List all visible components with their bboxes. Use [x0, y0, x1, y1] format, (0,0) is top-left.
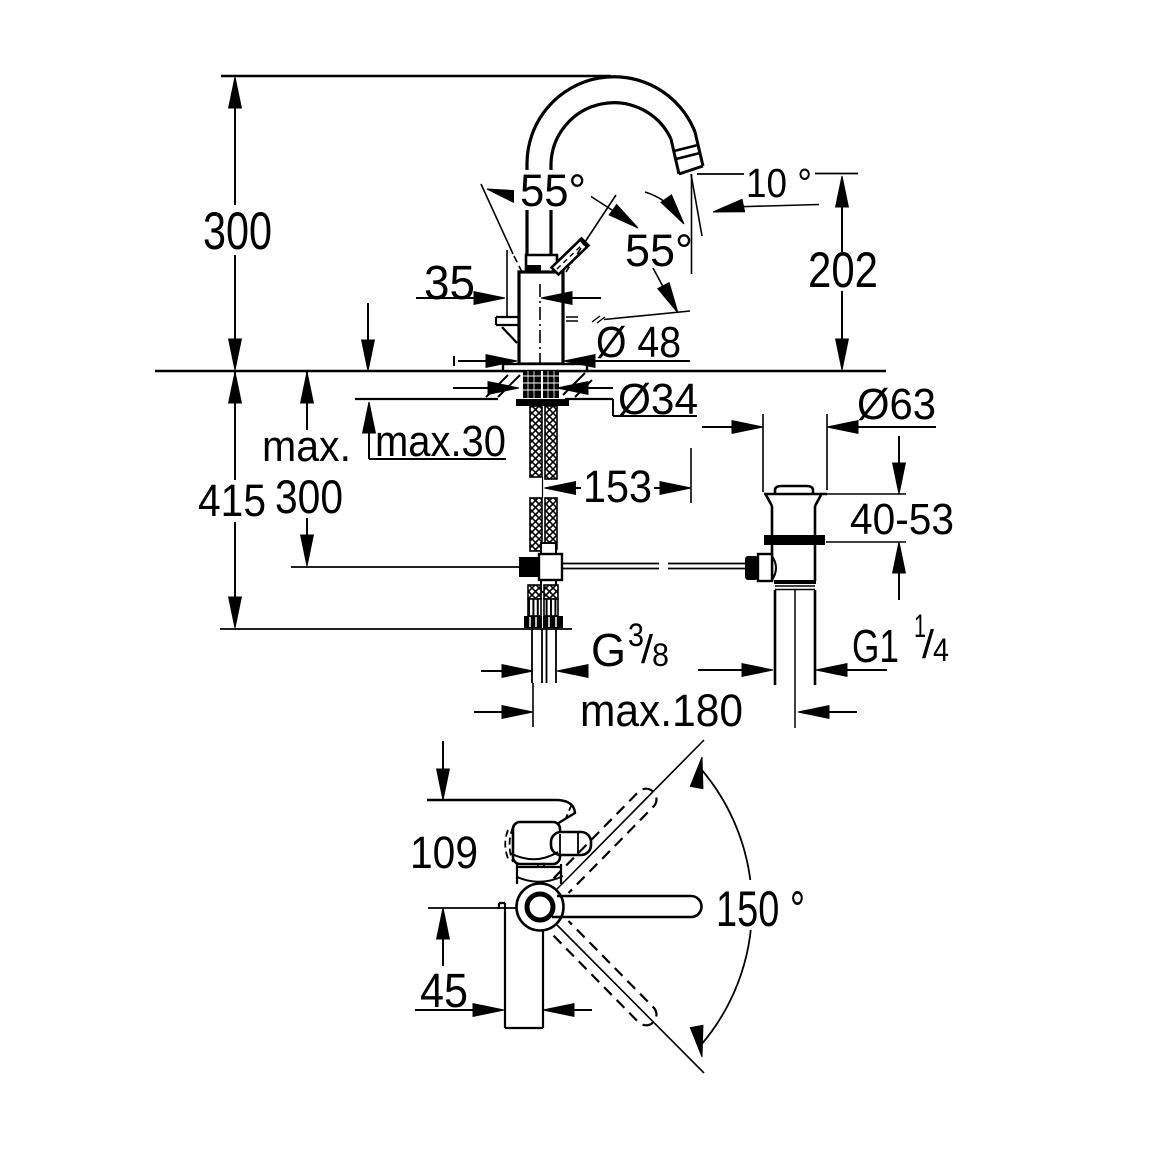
spout collar lines	[674, 145, 700, 159]
plan dashed spout up position	[554, 789, 657, 893]
dim G3/8	[481, 670, 505, 672]
drain plug cap	[775, 486, 813, 495]
plan dashed spout down position	[554, 921, 657, 1025]
hose break centerline	[542, 477, 544, 498]
drain clamp ring	[764, 535, 825, 545]
dim G1 1/4	[698, 669, 887, 671]
spout tip face	[679, 166, 703, 174]
plan spout bar	[552, 896, 702, 917]
plan escutcheon dashed arcs	[505, 830, 509, 861]
counter top line	[155, 370, 886, 372]
hose connector nuts striped	[528, 599, 541, 616]
dimension 300 line	[234, 79, 236, 368]
faucet body	[519, 272, 563, 364]
svg-text:Ø34: Ø34	[618, 375, 698, 424]
150deg lower leg	[557, 925, 704, 1073]
hose end nuts dark	[524, 616, 542, 628]
plan spout ring	[517, 884, 564, 931]
svg-text:45: 45	[420, 965, 468, 1018]
max180 left extension line	[532, 683, 534, 727]
cap black wedge	[527, 265, 541, 273]
tailpipe centerline	[794, 590, 796, 728]
svg-text:202: 202	[808, 242, 878, 298]
55 upper left leg	[481, 184, 513, 254]
drain body upper	[772, 506, 815, 535]
svg-text:109: 109	[410, 827, 478, 878]
dim Ø34	[453, 387, 613, 389]
plan lever stub	[551, 832, 591, 855]
dim 109 top arrow	[442, 741, 444, 772]
spout tip right edge	[695, 132, 703, 166]
dim 415	[234, 372, 236, 626]
braided hose segment 3	[528, 585, 541, 599]
dim 35 extension line	[506, 250, 508, 316]
dim max30 lower arrow and bracket	[369, 428, 506, 459]
plan handle top outline	[427, 800, 575, 827]
svg-text:35: 35	[424, 257, 475, 310]
plan neck	[517, 864, 561, 884]
dim Ø48	[454, 356, 690, 366]
dim max300	[306, 372, 308, 540]
pop-up rod left extension	[291, 566, 519, 568]
braided hose segment 2	[530, 498, 542, 551]
202 top reference line	[697, 173, 858, 176]
spout tip left edge	[671, 139, 679, 174]
svg-text:max.180: max.180	[580, 685, 743, 736]
svg-text:300: 300	[203, 202, 272, 261]
svg-text:55°: 55°	[625, 225, 693, 276]
svg-text:150 °: 150 °	[716, 881, 805, 937]
55 arc near tip	[645, 192, 681, 219]
150deg upper leg	[557, 740, 704, 889]
rod knob on drain	[745, 556, 758, 580]
top reference line	[221, 75, 611, 77]
drain body lower	[772, 545, 815, 581]
153 right extension line	[690, 448, 692, 503]
spout vertical reference line	[691, 174, 693, 274]
svg-text:G: G	[591, 624, 626, 676]
10deg leader	[731, 205, 819, 208]
washer under counter	[516, 399, 569, 406]
plan dome arcs	[510, 852, 558, 859]
counter hatch right	[563, 373, 592, 397]
svg-text:Ø63: Ø63	[857, 380, 936, 429]
spout axis 10deg line	[691, 174, 702, 236]
Ø34 label bracket	[613, 399, 697, 416]
dim 202	[841, 178, 843, 368]
counter hatch left	[486, 375, 520, 397]
counter bottom line	[355, 398, 613, 400]
dim Ø63	[763, 414, 827, 492]
dim 40-53	[898, 436, 900, 600]
centerline of body	[539, 284, 541, 368]
svg-text:415: 415	[198, 475, 266, 526]
braided hose segment 1	[530, 406, 542, 477]
plan cartridge block	[513, 822, 560, 864]
svg-text:153: 153	[583, 461, 652, 512]
spout gooseneck outer	[527, 77, 695, 256]
drain bottom band	[774, 580, 816, 584]
left outlet piece	[496, 317, 519, 325]
svg-text:8: 8	[652, 637, 669, 673]
drain flange	[764, 494, 827, 506]
svg-text:Ø 48: Ø 48	[596, 318, 681, 367]
dim 45	[415, 1009, 592, 1011]
hose end reference line	[220, 628, 572, 630]
svg-text:max.: max.	[262, 422, 351, 471]
dim 109 bottom reference line	[428, 907, 516, 909]
55 upper right leg	[583, 195, 616, 245]
svg-text:4: 4	[933, 632, 949, 668]
150deg arc	[700, 768, 752, 1046]
rod fitting knob	[519, 557, 539, 577]
svg-text:10 °: 10 °	[746, 160, 812, 206]
svg-text:G1: G1	[852, 620, 899, 672]
handle lever	[552, 239, 589, 275]
plan shank	[499, 903, 543, 1028]
pop-up rod to drain	[562, 564, 747, 569]
svg-text:55°: 55°	[520, 165, 586, 216]
base plate	[503, 364, 587, 371]
svg-text:max.30: max.30	[375, 417, 506, 466]
spout gooseneck inner	[551, 103, 671, 256]
rod fitting tabs	[541, 543, 556, 554]
55 lower flag	[653, 268, 673, 305]
dim 153	[570, 487, 664, 489]
threaded shank through counter	[523, 371, 559, 398]
G3/8 threaded tails	[532, 628, 556, 683]
cap between tube and body	[526, 255, 557, 272]
drain tailpipe	[775, 590, 815, 685]
dim max180	[474, 711, 857, 713]
Ø48 leader slanted line	[604, 311, 690, 320]
dim 35	[416, 297, 601, 299]
svg-text:40-53: 40-53	[850, 495, 954, 544]
Ø48 leader stubs	[566, 317, 578, 321]
svg-text:300: 300	[275, 470, 343, 523]
dim max30 upper arrow	[367, 303, 369, 346]
